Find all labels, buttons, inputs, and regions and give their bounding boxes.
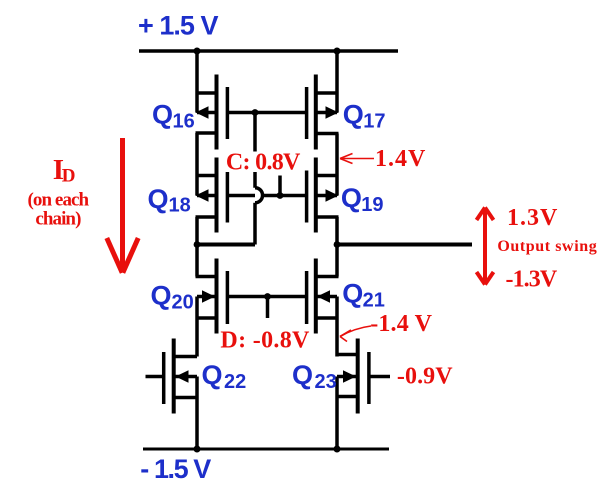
svg-text:Q: Q [341,183,362,213]
svg-text:+ 1.5 V: + 1.5 V [138,10,219,40]
svg-text:Q: Q [148,184,169,214]
svg-text:Q: Q [152,99,173,129]
svg-text:D: -0.8V: D: -0.8V [220,328,310,354]
svg-text:Output swing: Output swing [497,238,596,255]
svg-text:D: D [62,165,76,186]
svg-text:18: 18 [169,195,191,217]
svg-text:-0.9V: -0.9V [397,363,453,389]
svg-text:-1.4 V: -1.4 V [370,311,432,337]
svg-text:1.4V: 1.4V [375,146,426,172]
svg-text:Q: Q [202,360,223,390]
svg-text:20: 20 [172,291,194,313]
svg-text:21: 21 [363,290,385,312]
svg-text:1.3V: 1.3V [507,205,558,231]
svg-text:Q: Q [151,280,172,310]
svg-text:23: 23 [315,371,337,393]
svg-text:19: 19 [361,194,383,216]
svg-text:chain): chain) [35,209,81,230]
svg-text:Q: Q [343,99,364,129]
svg-text:Q: Q [292,360,313,390]
svg-text:(on each: (on each [28,189,90,210]
svg-text:22: 22 [224,371,246,393]
svg-text:17: 17 [363,110,385,132]
svg-text:- 1.5 V: - 1.5 V [140,454,211,484]
svg-text:C: 0.8V: C: 0.8V [226,149,301,175]
svg-text:16: 16 [173,110,195,132]
svg-text:-1.3V: -1.3V [506,266,558,292]
svg-text:Q: Q [342,279,363,309]
